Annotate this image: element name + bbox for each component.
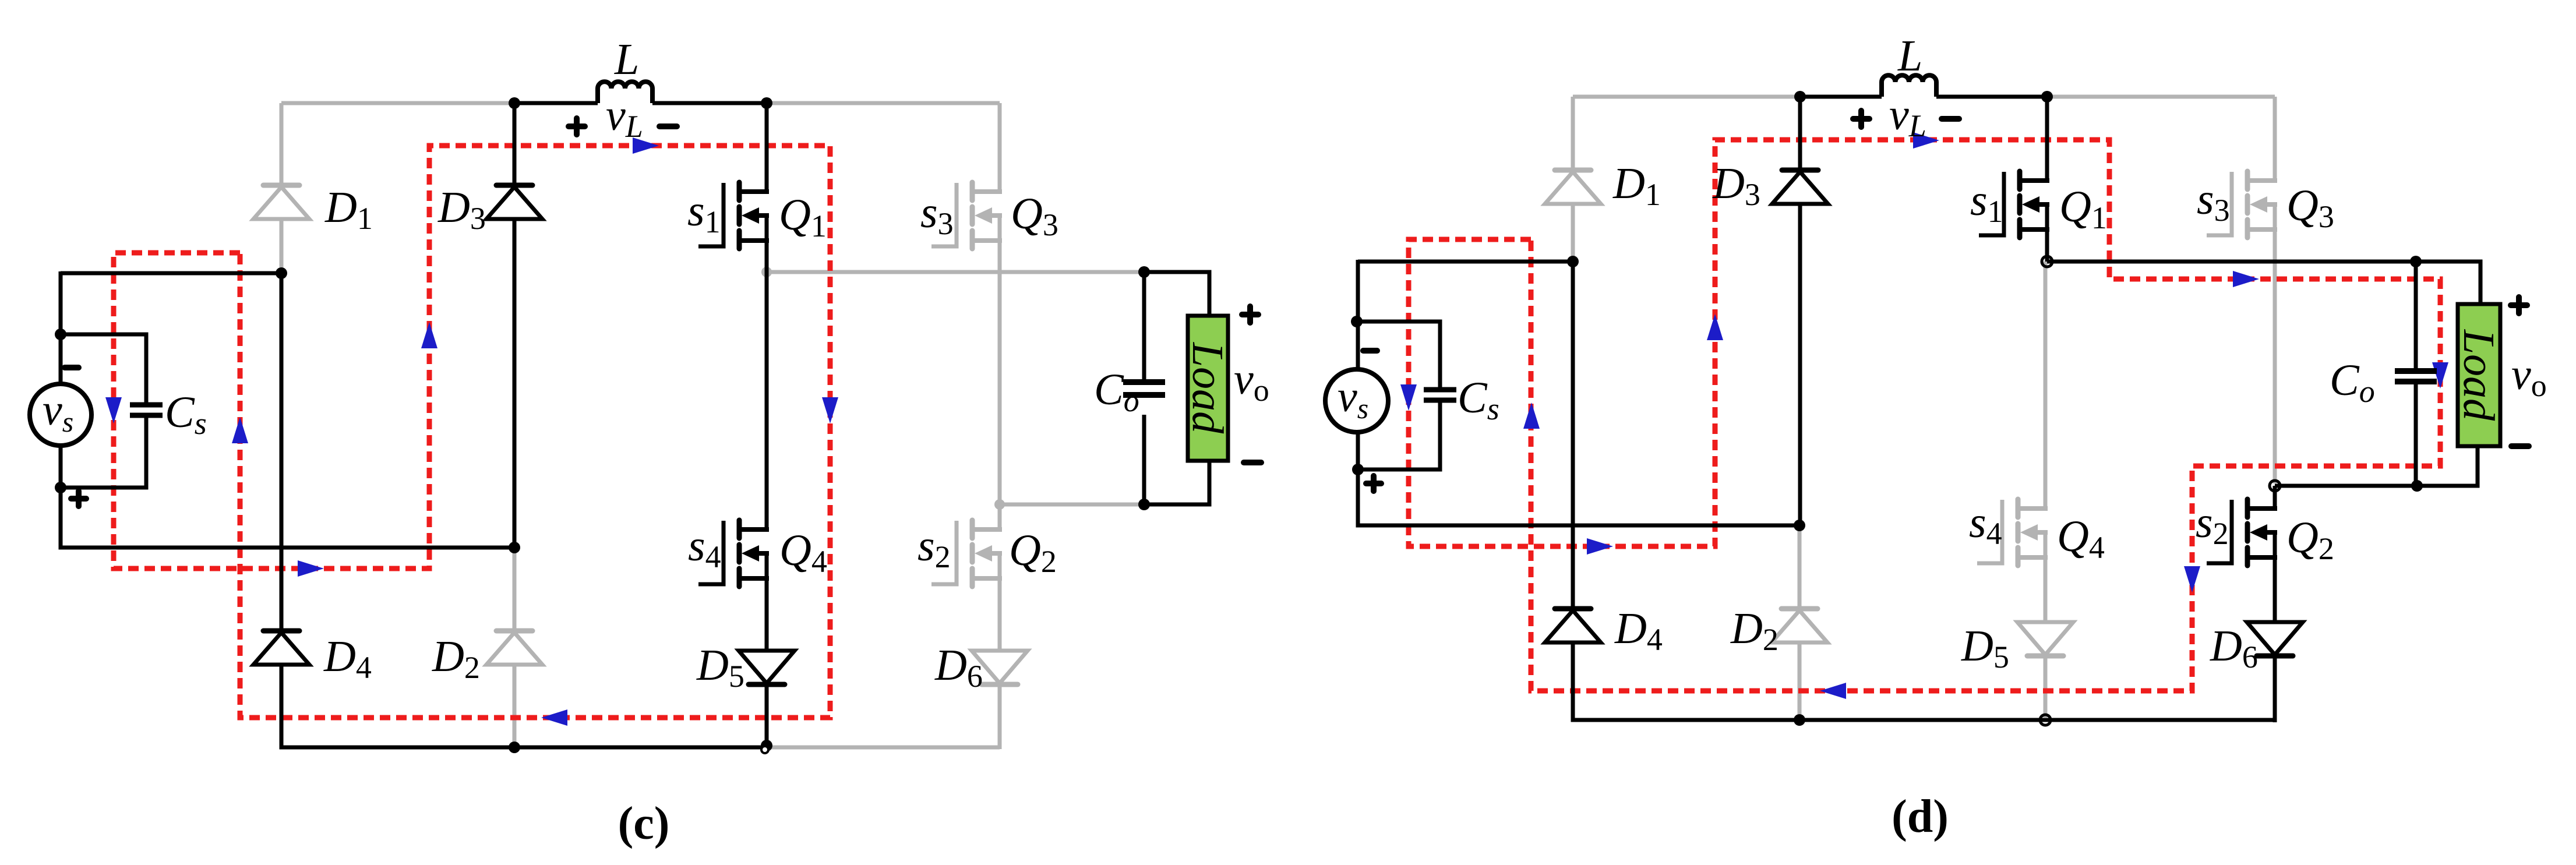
svg-text:L: L xyxy=(614,35,639,84)
svg-text:Load: Load xyxy=(2454,329,2503,421)
svg-text:L: L xyxy=(1897,31,1922,80)
svg-text:(d): (d) xyxy=(1892,791,1949,842)
svg-text:Load: Load xyxy=(1183,342,1232,434)
svg-text:(c): (c) xyxy=(618,798,670,849)
